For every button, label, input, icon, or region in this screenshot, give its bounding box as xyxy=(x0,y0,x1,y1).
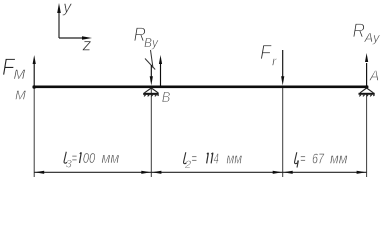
svg-text:Ay: Ay xyxy=(364,30,381,45)
svg-text:By: By xyxy=(144,35,159,50)
svg-text:=: = xyxy=(72,150,78,167)
svg-text:R: R xyxy=(353,21,366,42)
svg-text:00: 00 xyxy=(83,150,96,167)
svg-text:=: = xyxy=(300,151,306,168)
svg-text:4: 4 xyxy=(214,151,219,168)
svg-text:мм: мм xyxy=(330,151,347,168)
svg-text:M: M xyxy=(15,88,26,103)
svg-text:A: A xyxy=(369,68,379,85)
svg-text:F: F xyxy=(260,42,273,64)
svg-text:M: M xyxy=(14,66,26,82)
svg-text:y: y xyxy=(62,0,72,16)
svg-text:мм: мм xyxy=(227,151,243,168)
svg-text:67: 67 xyxy=(312,151,324,168)
svg-text:=: = xyxy=(191,151,197,168)
svg-text:мм: мм xyxy=(102,150,120,167)
svg-text:2: 2 xyxy=(184,159,191,171)
svg-text:B: B xyxy=(162,89,171,106)
svg-text:r: r xyxy=(272,54,277,69)
svg-text:z: z xyxy=(82,35,92,55)
